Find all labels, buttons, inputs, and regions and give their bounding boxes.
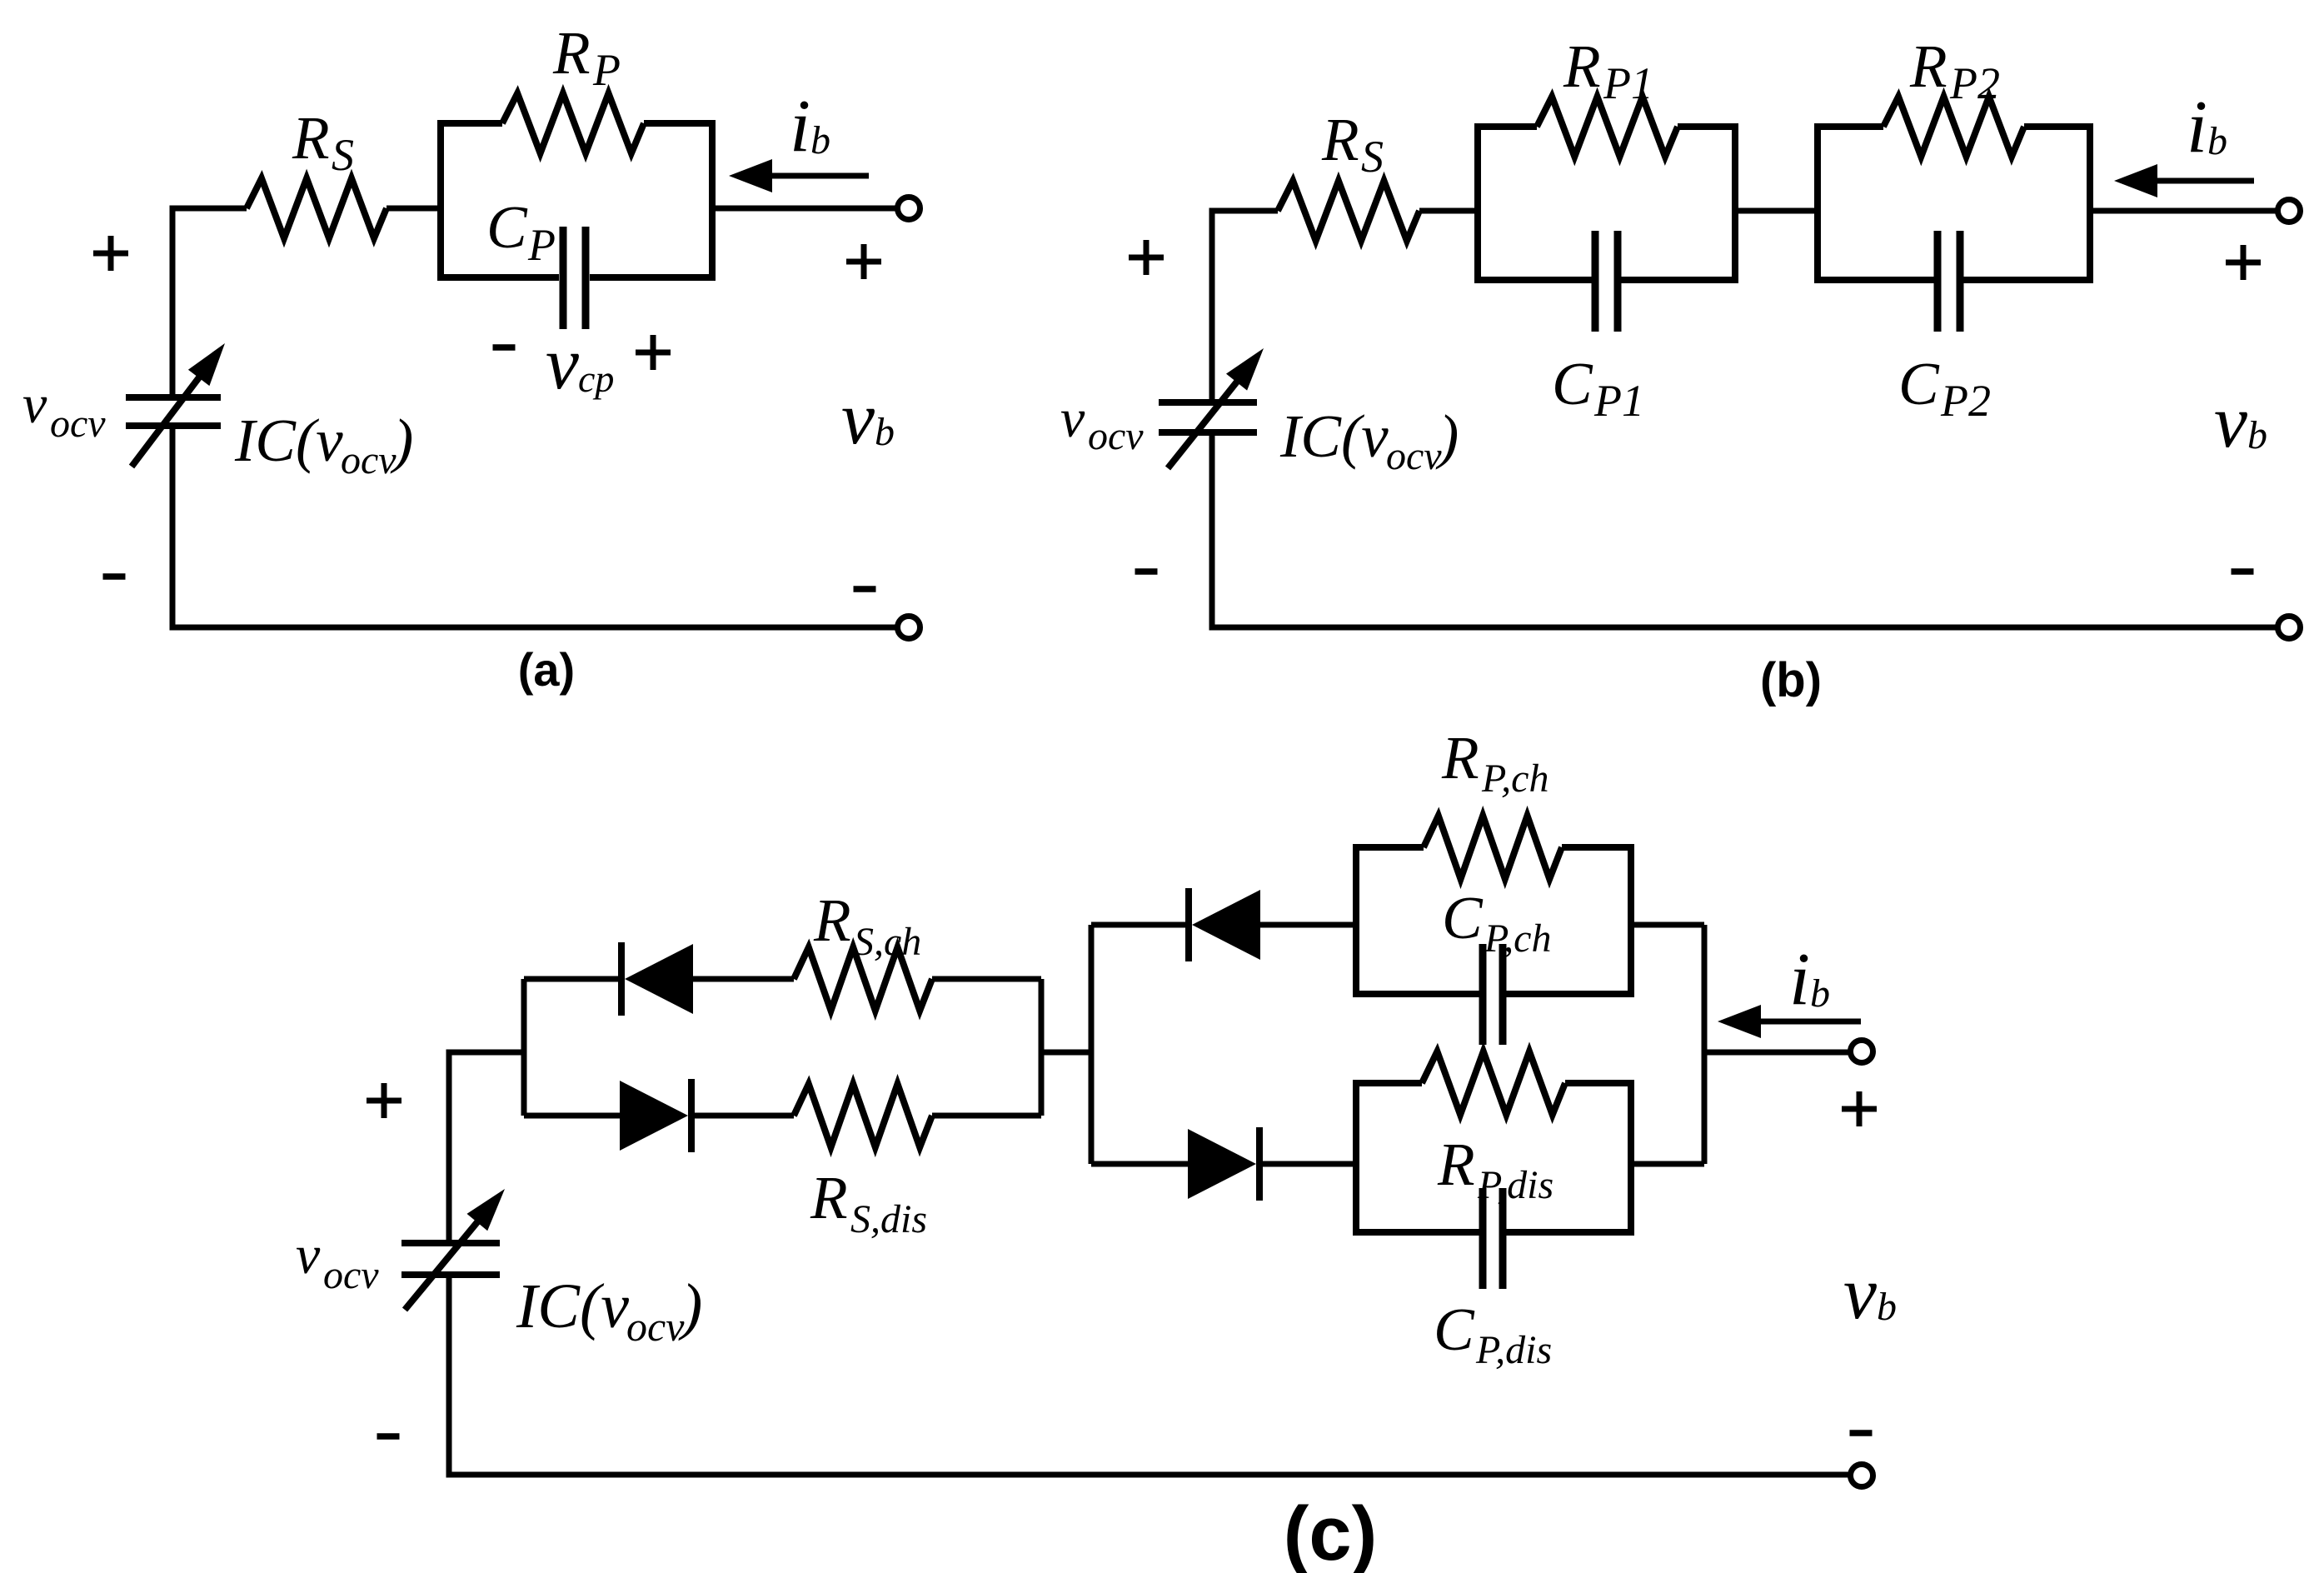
svg-text:ocv: ocv bbox=[341, 438, 396, 482]
svg-text:P,dis: P,dis bbox=[1475, 1328, 1552, 1372]
svg-text:P2: P2 bbox=[1949, 58, 2000, 108]
svg-text:(b): (b) bbox=[1760, 653, 1822, 707]
svg-text:IC(v: IC(v bbox=[516, 1271, 629, 1341]
svg-text:C: C bbox=[1434, 1296, 1475, 1363]
svg-text:b: b bbox=[1810, 971, 1830, 1016]
svg-text:P1: P1 bbox=[1603, 58, 1653, 108]
svg-text:S,ch: S,ch bbox=[854, 920, 921, 964]
svg-text:R: R bbox=[1437, 1131, 1475, 1198]
svg-text:): ) bbox=[390, 407, 413, 474]
svg-text:R: R bbox=[1321, 106, 1359, 173]
svg-text:ocv: ocv bbox=[1386, 434, 1442, 478]
svg-text:): ) bbox=[678, 1271, 702, 1341]
svg-text:ocv: ocv bbox=[626, 1303, 685, 1350]
svg-text:C: C bbox=[1898, 350, 1940, 417]
svg-text:(c): (c) bbox=[1284, 1491, 1377, 1573]
svg-text:v: v bbox=[296, 1225, 321, 1286]
svg-text:R: R bbox=[1909, 32, 1947, 100]
svg-text:P,dis: P,dis bbox=[1477, 1163, 1553, 1207]
svg-text:S: S bbox=[1361, 132, 1384, 182]
svg-text:S: S bbox=[332, 130, 354, 180]
svg-text:b: b bbox=[2207, 119, 2227, 163]
svg-text:cp: cp bbox=[578, 357, 614, 400]
svg-text:P2: P2 bbox=[1940, 376, 1991, 426]
svg-text:S,dis: S,dis bbox=[850, 1197, 927, 1241]
svg-text:v: v bbox=[22, 374, 47, 435]
svg-text:C: C bbox=[486, 193, 528, 261]
svg-text:IC(v: IC(v bbox=[234, 407, 343, 474]
svg-text:R: R bbox=[813, 886, 851, 954]
svg-text:R: R bbox=[1441, 724, 1479, 791]
svg-text:v: v bbox=[1843, 1252, 1877, 1335]
svg-text:i: i bbox=[1789, 938, 1810, 1021]
svg-text:C: C bbox=[1442, 884, 1484, 951]
svg-text:R: R bbox=[552, 19, 591, 87]
svg-text:): ) bbox=[1435, 402, 1459, 470]
svg-text:IC(v: IC(v bbox=[1279, 402, 1389, 470]
svg-text:ocv: ocv bbox=[323, 1253, 379, 1297]
svg-text:v: v bbox=[1060, 388, 1085, 449]
svg-text:b: b bbox=[1877, 1285, 1897, 1329]
svg-text:(a): (a) bbox=[518, 643, 575, 696]
svg-text:ocv: ocv bbox=[50, 402, 106, 446]
svg-text:v: v bbox=[546, 322, 579, 405]
svg-text:R: R bbox=[1563, 32, 1601, 100]
svg-text:P,ch: P,ch bbox=[1481, 757, 1549, 801]
svg-text:b: b bbox=[2247, 413, 2267, 457]
svg-text:v: v bbox=[841, 377, 875, 460]
svg-text:P: P bbox=[592, 45, 621, 95]
svg-text:P1: P1 bbox=[1593, 376, 1644, 426]
svg-text:b: b bbox=[875, 410, 895, 454]
svg-text:R: R bbox=[810, 1164, 848, 1231]
svg-text:i: i bbox=[790, 85, 810, 167]
svg-text:P,ch: P,ch bbox=[1484, 916, 1551, 961]
svg-text:i: i bbox=[2187, 86, 2207, 168]
svg-text:v: v bbox=[2214, 381, 2247, 463]
svg-text:P: P bbox=[527, 220, 556, 270]
svg-text:b: b bbox=[810, 118, 830, 162]
svg-text:C: C bbox=[1552, 350, 1593, 417]
svg-text:R: R bbox=[292, 104, 330, 172]
svg-text:ocv: ocv bbox=[1088, 414, 1144, 458]
